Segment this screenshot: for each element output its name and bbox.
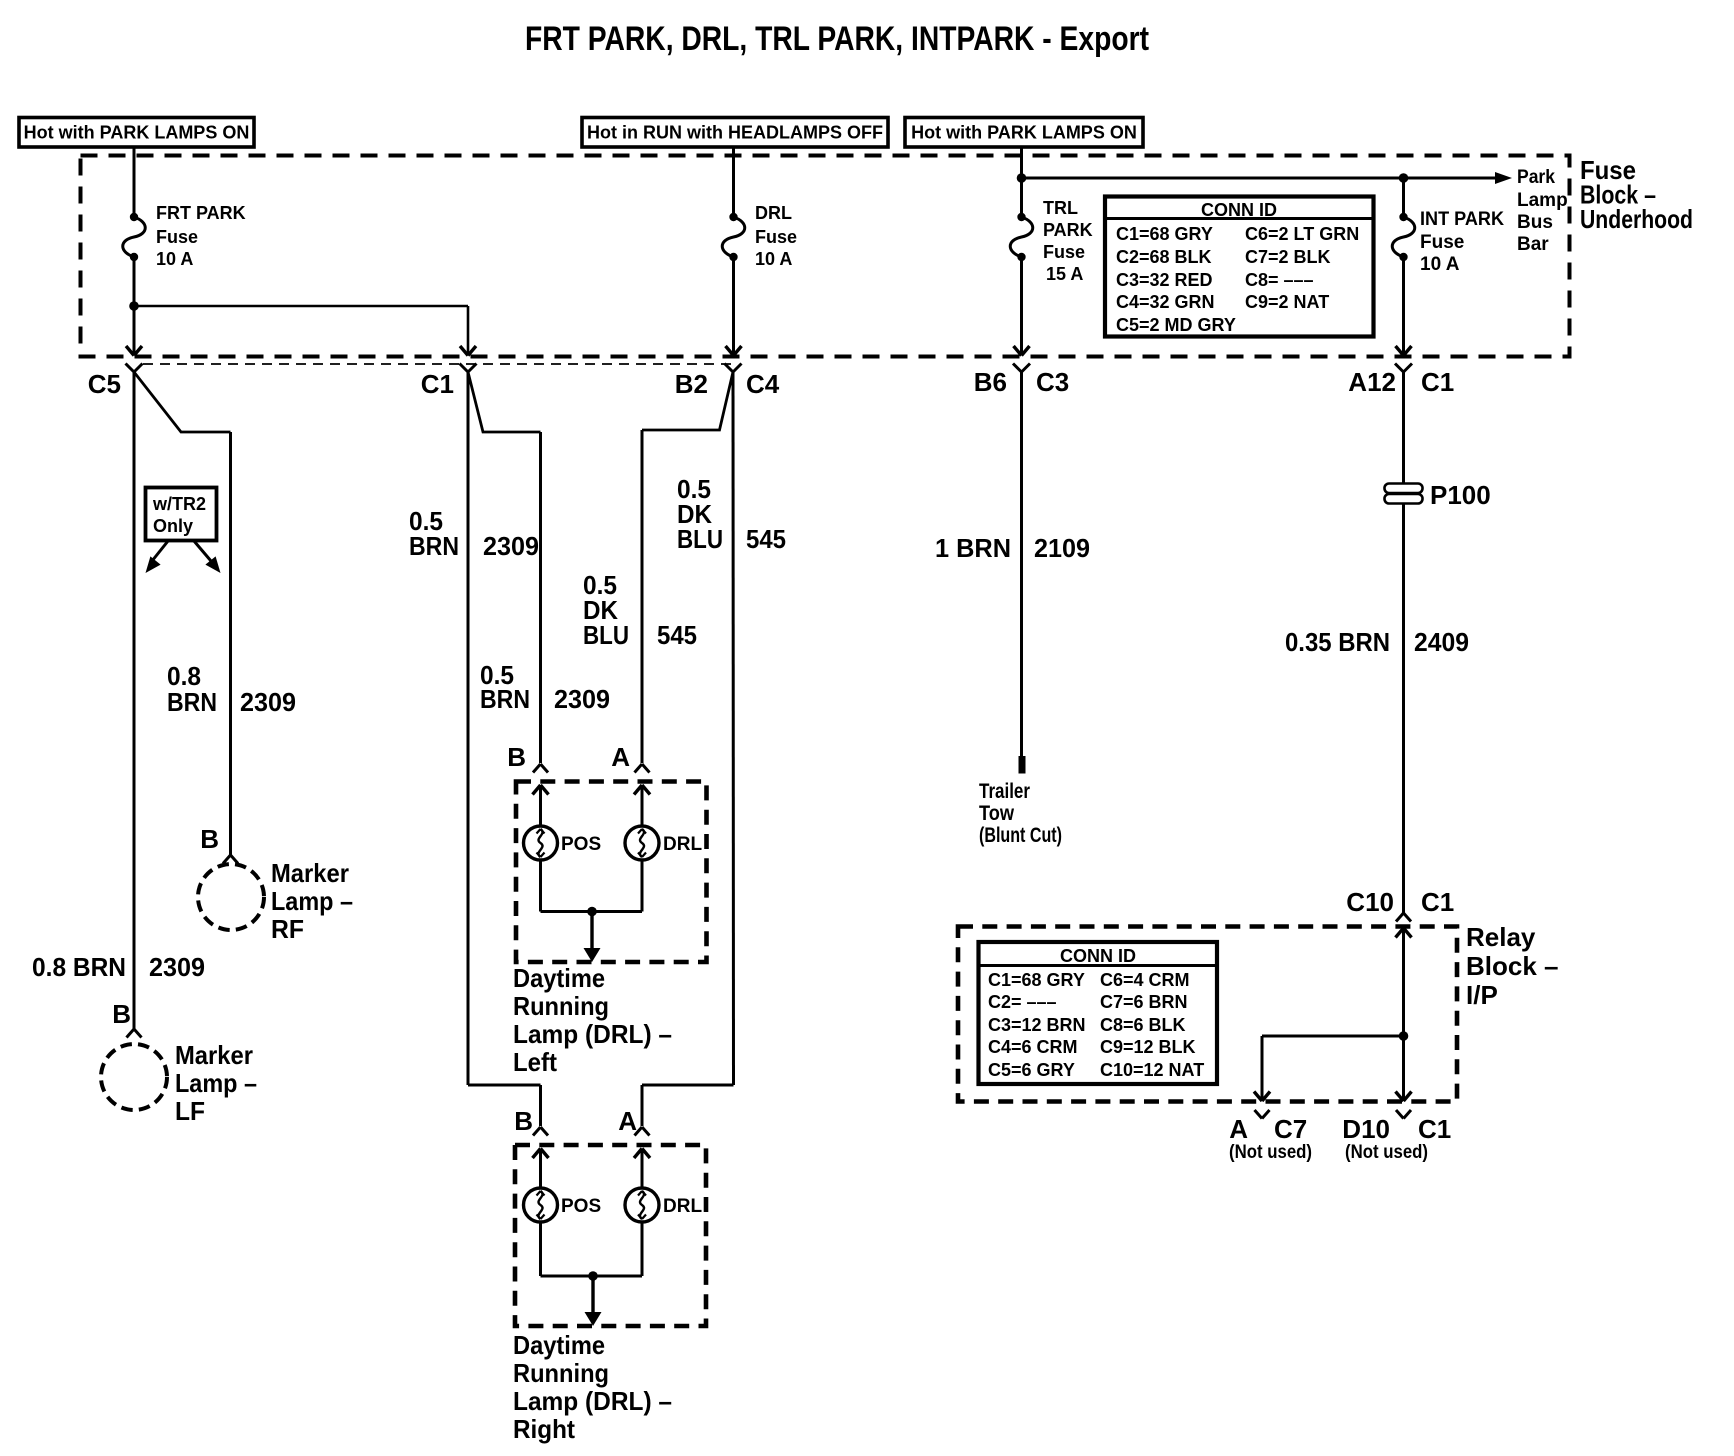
svg-text:CONN ID: CONN ID [1060,946,1136,966]
connector C5 [126,364,143,373]
svg-text:C1=68 GRY: C1=68 GRY [1116,224,1213,244]
wire: junction to C5 arrow [133,306,136,353]
connector B2 C4 [725,364,742,373]
svg-text:Lamp: Lamp [1517,190,1568,211]
svg-text:TRL: TRL [1043,198,1078,218]
connector D10 C1 (not used) [1396,1110,1411,1119]
lamp POS left [524,826,558,860]
fuse DRL 10A [729,213,737,221]
svg-text:B: B [112,999,131,1029]
wire: B2 branch diagonal [642,372,733,430]
svg-text:C3: C3 [1036,367,1069,397]
wire: right box to bus junction [1020,147,1023,178]
wire: P100 to C10 [1402,504,1405,914]
svg-text:545: 545 [746,524,786,554]
svg-text:1 BRN: 1 BRN [935,533,1011,563]
svg-text:545: 545 [657,620,697,650]
svg-text:D10: D10 [1342,1114,1390,1144]
svg-text:BRN: BRN [409,531,459,561]
marker lamp RF dashed circle [198,864,264,930]
arrow head park lamp bus bar [1495,172,1512,184]
svg-text:Hot in RUN with HEADLAMPS OFF: Hot in RUN with HEADLAMPS OFF [587,123,883,143]
svg-text:(Not used): (Not used) [1229,1142,1312,1163]
svg-text:Tow: Tow [979,802,1015,825]
relay block IP dashed outline [958,927,1457,1102]
CONN ID table (relay block) [979,942,1218,1084]
arrow into D10 (not used) [1396,1092,1412,1102]
svg-text:C9=2 NAT: C9=2 NAT [1245,292,1329,312]
lamp DRL right [625,1188,659,1222]
connector boundary thin dashed line [143,363,731,365]
lamp POS right [524,1188,558,1222]
svg-text:Trailer: Trailer [979,780,1030,803]
svg-text:C8=6 BLK: C8=6 BLK [1100,1015,1186,1035]
junction dot relay block [1399,1031,1409,1041]
svg-text:FRT PARK, DRL, TRL PARK, INTPA: FRT PARK, DRL, TRL PARK, INTPARK - Expor… [525,20,1149,58]
svg-text:w/TR2: w/TR2 [152,494,206,514]
svg-text:C7: C7 [1274,1114,1307,1144]
svg-text:DRL: DRL [755,203,792,223]
svg-text:C4=6 CRM: C4=6 CRM [988,1037,1078,1057]
svg-text:Daytime: Daytime [513,963,605,993]
wire: C5 to Marker Lamp LF [133,372,136,1029]
svg-text:Lamp –: Lamp – [271,886,353,916]
svg-text:BRN: BRN [167,687,217,717]
svg-text:C3=32 RED: C3=32 RED [1116,270,1213,290]
svg-text:15 A: 15 A [1046,264,1083,284]
svg-text:2309: 2309 [483,531,539,561]
svg-text:Running: Running [513,991,609,1021]
svg-text:C10: C10 [1346,887,1394,917]
svg-text:C3=12 BRN: C3=12 BRN [988,1015,1086,1035]
svg-text:INT PARK: INT PARK [1420,209,1504,230]
svg-text:(Blunt Cut): (Blunt Cut) [979,824,1062,847]
wire: FRT PARK fuse to junction [133,257,136,306]
svg-text:C1: C1 [1421,367,1454,397]
svg-text:Block –: Block – [1466,951,1559,981]
fuse FRT PARK 10A [130,213,138,221]
park lamp bus bar wire [1022,177,1497,180]
svg-text:B: B [514,1106,533,1136]
svg-text:B2: B2 [675,369,708,399]
svg-text:Bus: Bus [1517,212,1553,233]
ground arrow DRL right [591,1276,594,1313]
svg-text:C8= –––: C8= ––– [1245,270,1314,290]
fuse INT PARK 10A [1399,213,1407,221]
svg-text:C5=2 MD GRY: C5=2 MD GRY [1116,315,1236,335]
svg-text:Fuse: Fuse [1043,242,1085,262]
svg-text:2109: 2109 [1034,533,1090,563]
wire: INT PARK fuse to A12 arrow [1402,257,1405,353]
svg-text:C1: C1 [1418,1114,1451,1144]
power source box: Hot in RUN with HEADLAMPS OFF [582,118,888,148]
svg-text:B: B [200,824,219,854]
wire: C1 branch diagonal [468,372,541,432]
svg-text:2309: 2309 [240,687,296,717]
wire: bus bar to INT PARK fuse [1402,178,1405,217]
entry arrow B DRL right [533,1149,549,1159]
arrow into B6 [1014,346,1030,356]
wire: left box to FRT PARK fuse [133,147,136,217]
svg-text:Fuse: Fuse [1420,232,1464,253]
svg-text:I/P: I/P [1466,980,1498,1010]
wire: C1 main down [467,372,470,1085]
wire: middle box to DRL fuse [732,147,735,217]
svg-text:DRL: DRL [663,834,702,855]
svg-text:A: A [611,742,630,772]
svg-text:2409: 2409 [1414,627,1469,657]
wire: branch down to DRL-left pin A [641,430,644,763]
svg-text:2309: 2309 [554,684,610,714]
svg-text:LF: LF [175,1096,205,1126]
entry arrow A DRL left [634,785,650,795]
wire: DRL left to common [641,860,644,912]
svg-text:C1=68 GRY: C1=68 GRY [988,970,1085,990]
svg-text:C2= –––: C2= ––– [988,992,1057,1012]
wire: relay branch left down [1261,1036,1264,1100]
wire: B2 main jog left [642,1084,734,1087]
svg-text:C5: C5 [88,369,121,399]
svg-text:BRN: BRN [480,684,530,714]
svg-text:Running: Running [513,1358,609,1388]
svg-text:Hot with PARK LAMPS ON: Hot with PARK LAMPS ON [24,123,250,143]
svg-text:A: A [618,1106,637,1136]
w/TR2 arrow left [152,541,168,561]
svg-text:FRT PARK: FRT PARK [156,203,246,223]
svg-text:Marker: Marker [175,1040,253,1070]
svg-text:10 A: 10 A [1420,254,1460,275]
svg-text:A12: A12 [1348,367,1396,397]
blunt cut end bar [1019,756,1026,774]
svg-text:Daytime: Daytime [513,1330,605,1360]
arrow into C1 [460,346,476,356]
wire: branch down to DRL-left pin B [539,432,542,763]
svg-text:2309: 2309 [149,952,205,982]
daytime running lamp left dashed box [516,782,707,963]
wire: DRL right to common [641,1222,644,1276]
svg-text:DRL: DRL [663,1196,702,1217]
svg-text:C6=2 LT GRN: C6=2 LT GRN [1245,224,1359,244]
svg-text:10 A: 10 A [755,249,792,269]
svg-text:0.35 BRN: 0.35 BRN [1285,627,1390,657]
wire: B6 to blunt cut [1020,372,1023,756]
svg-text:Lamp –: Lamp – [175,1068,257,1098]
svg-text:POS: POS [561,834,601,855]
svg-text:Right: Right [513,1414,575,1444]
svg-text:C2=68 BLK: C2=68 BLK [1116,247,1212,267]
svg-text:Fuse: Fuse [156,227,198,247]
connector C1 (left) [460,364,477,373]
svg-text:C9=12 BLK: C9=12 BLK [1100,1037,1196,1057]
svg-text:PARK: PARK [1043,220,1093,240]
svg-text:B: B [507,742,526,772]
svg-text:Bar: Bar [1517,234,1549,255]
w/TR2 arrow right [194,541,211,561]
inline connector P100 symbol [1385,484,1423,494]
power source box: Hot with PARK LAMPS ON (right) [905,118,1143,148]
svg-text:10 A: 10 A [156,249,193,269]
connector A12 C1 [1395,364,1412,373]
svg-text:C1: C1 [1421,887,1454,917]
svg-text:Underhood: Underhood [1580,204,1693,234]
junction dot FRT PARK [129,301,139,311]
svg-text:Fuse: Fuse [755,227,797,247]
svg-text:Marker: Marker [271,858,349,888]
wire: POS left to common [539,860,542,912]
wire: branch down to Marker Lamp RF [229,432,232,855]
wire: TRL PARK fuse to B6 arrow [1020,257,1023,353]
wire: junction horizontal to C1 drop [134,305,468,308]
junction dot bus bar left [1017,173,1027,183]
ground arrow DRL left [590,912,593,951]
junction dot DRL right common [588,1271,598,1281]
svg-text:Only: Only [153,516,193,536]
svg-text:0.8 BRN: 0.8 BRN [32,952,126,982]
entry arrow B DRL left [533,785,549,795]
svg-text:B6: B6 [974,367,1007,397]
svg-text:C4=32 GRN: C4=32 GRN [1116,292,1215,312]
svg-text:P100: P100 [1430,480,1491,510]
svg-text:Park: Park [1517,167,1555,188]
wire: A12 to P100 [1402,372,1405,484]
svg-text:C7=6 BRN: C7=6 BRN [1100,992,1188,1012]
CONN ID table (fuse block) [1105,197,1374,337]
entry arrow A DRL right [634,1149,650,1159]
wire: relay branch horizontal [1262,1035,1404,1038]
svg-text:Left: Left [513,1047,557,1077]
wire: B2 main down [732,372,736,1085]
svg-text:C5=6 GRY: C5=6 GRY [988,1060,1075,1080]
lamp DRL left [625,826,659,860]
arrow into C5 [126,346,142,356]
svg-text:C7=2 BLK: C7=2 BLK [1245,247,1331,267]
svg-text:CONN ID: CONN ID [1201,200,1277,220]
svg-text:BLU: BLU [677,524,723,554]
wire: relay main down [1402,1036,1405,1100]
fuse TRL PARK 15A [1017,213,1025,221]
svg-text:A: A [1229,1114,1248,1144]
fuse block underhood dashed outline [81,156,1570,357]
svg-text:(Not used): (Not used) [1345,1142,1428,1163]
connector A C7 (not used) [1255,1110,1270,1119]
svg-text:Lamp (DRL) –: Lamp (DRL) – [513,1386,672,1416]
wire: bus junction to TRL PARK fuse [1020,178,1023,217]
arrow into A12 [1396,346,1412,356]
svg-text:C1: C1 [421,369,454,399]
svg-text:C4: C4 [746,369,780,399]
arrow into B2 [726,346,742,356]
svg-text:Relay: Relay [1466,922,1536,952]
arrow into A (not used) [1254,1092,1270,1102]
power source box: Hot with PARK LAMPS ON (left) [19,118,254,148]
marker lamp LF dashed circle [101,1044,167,1110]
wire: C5 branch diagonal [134,372,231,432]
svg-text:RF: RF [271,914,304,944]
svg-text:Hot with PARK LAMPS ON: Hot with PARK LAMPS ON [911,123,1137,143]
connector B6 C3 [1013,364,1030,373]
wire: C1 main jog right [468,1084,541,1087]
daytime running lamp right dashed box [515,1145,706,1326]
junction dot DRL left common [587,907,597,917]
svg-text:BLU: BLU [583,620,629,650]
wire: drop to C1 arrow [467,306,470,353]
w/TR2 Only option box [146,488,217,541]
entry arrow C10 relay block [1396,928,1412,938]
svg-text:Lamp (DRL) –: Lamp (DRL) – [513,1019,672,1049]
svg-text:C10=12 NAT: C10=12 NAT [1100,1060,1204,1080]
junction dot bus bar right [1399,173,1409,183]
svg-text:POS: POS [561,1196,601,1217]
svg-text:C6=4 CRM: C6=4 CRM [1100,970,1190,990]
wire: DRL fuse to B2 arrow [732,257,735,353]
wire: POS right to common [539,1222,542,1276]
